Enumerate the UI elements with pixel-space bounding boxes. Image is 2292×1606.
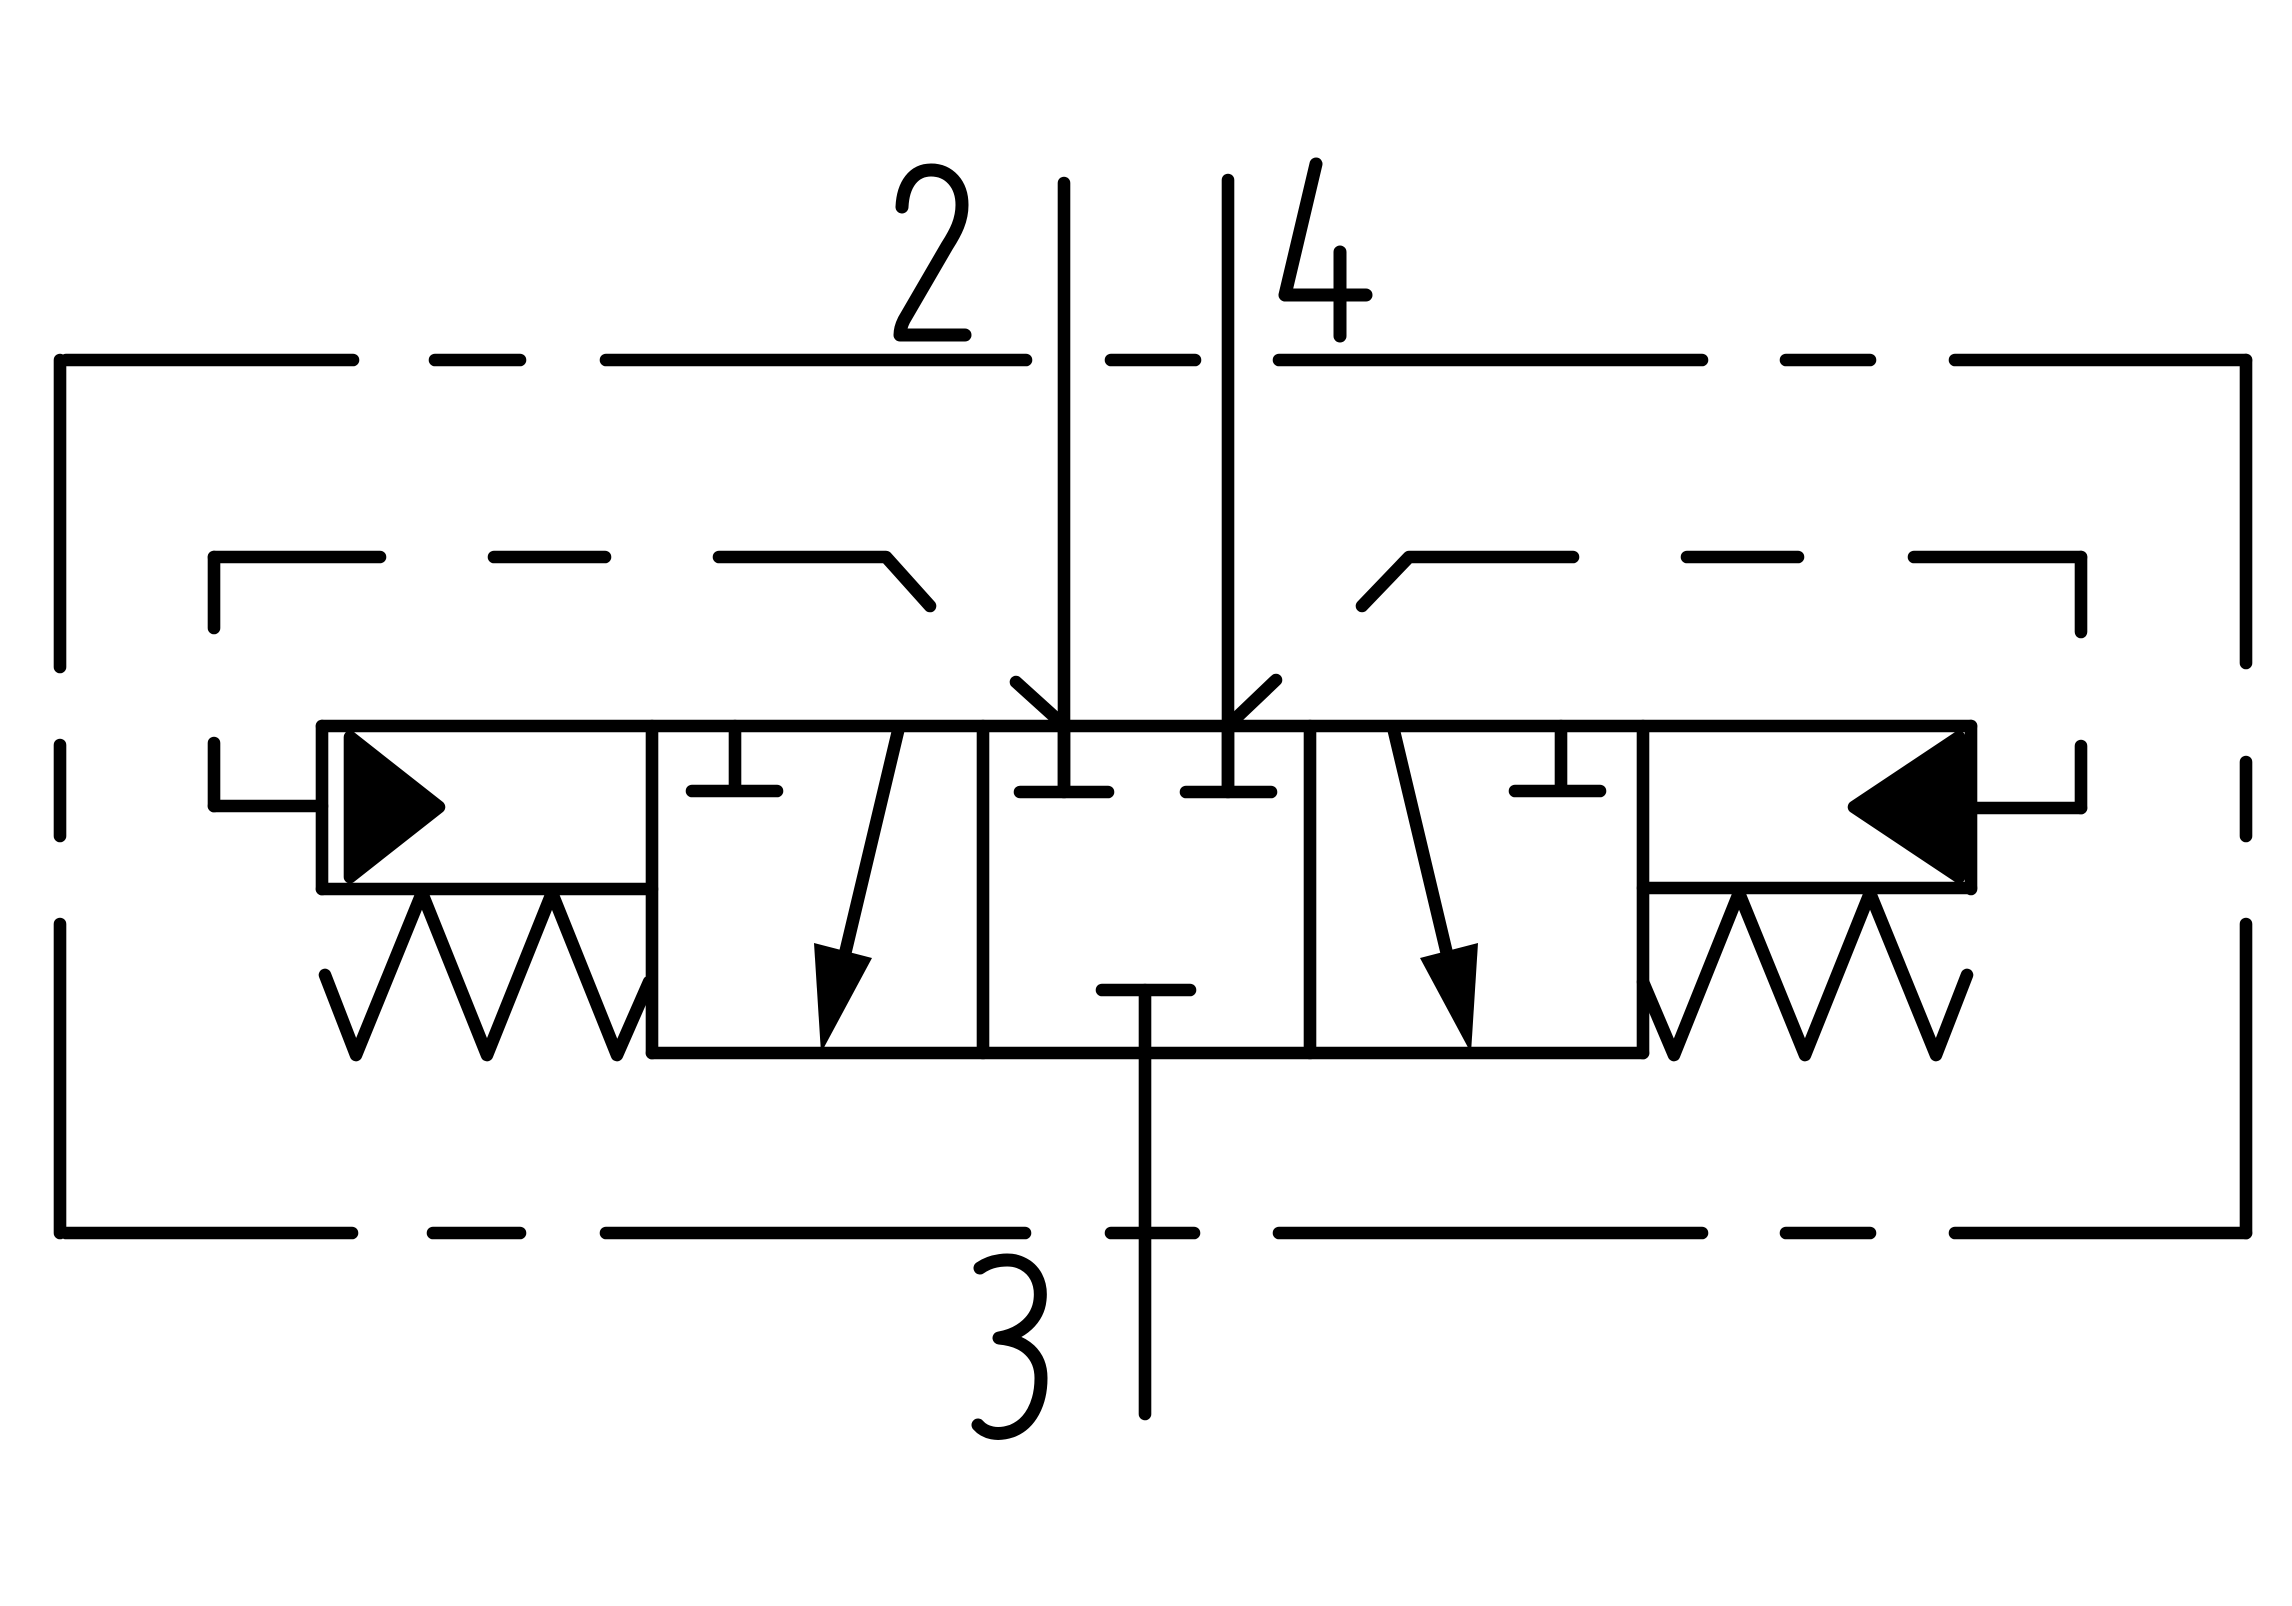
label 3 xyxy=(978,1260,1041,1433)
left position box arrow wire (port 4 to port 3) xyxy=(840,727,899,975)
left position box arrowhead xyxy=(814,943,872,1053)
port 4 wire xyxy=(1222,180,1235,792)
right position box arrowhead xyxy=(1420,943,1478,1053)
inner pilot line, left elbow dash bending toward valve xyxy=(719,557,930,606)
inner pilot line, top-right horizontal dashes xyxy=(1687,551,2081,564)
left pilot box bottom edge xyxy=(322,883,652,896)
left position box blocked port T (port 2 side) xyxy=(692,726,777,791)
right pilot box bottom edge xyxy=(1643,882,1971,895)
inner pilot line, right diagonal tick at valve port 4 xyxy=(1234,680,1276,720)
divider centre box / right position box xyxy=(1304,726,1317,1053)
right position box blocked port T (port 4 side) xyxy=(1515,726,1600,791)
label 2 xyxy=(900,170,965,335)
inner pilot line, left diagonal tick at valve port 2 xyxy=(1016,682,1058,720)
inner pilot line, right vertical dashes xyxy=(2075,557,2088,808)
inner pilot line, right elbow dash bending toward valve xyxy=(1362,557,1573,606)
outer pilot-line dashed rectangle: bottom edge xyxy=(66,1227,2246,1240)
centre box blocked port T under port 2 xyxy=(1020,726,1108,792)
divider right position box / right pilot box xyxy=(1637,726,1650,1053)
divider left position box / centre box xyxy=(977,726,990,1053)
inner pilot line, top-left horizontal dashes xyxy=(214,551,605,564)
centre box blocked port T under port 4 xyxy=(1186,726,1271,792)
label 4 xyxy=(1285,164,1366,336)
left centering spring xyxy=(325,893,649,1055)
pilot connection wire into left pilot operator xyxy=(214,800,322,813)
port 2 wire xyxy=(1058,183,1071,792)
inner pilot line, left vertical dashes xyxy=(208,557,221,806)
outer pilot-line dashed rectangle: right edge xyxy=(2240,360,2253,1233)
valve position boxes bottom edge xyxy=(652,1047,1643,1060)
right pilot box right edge xyxy=(1965,726,1978,889)
outer pilot-line dashed rectangle: left edge xyxy=(54,360,67,1233)
centre box blocked port T at port 3 xyxy=(1102,984,1190,997)
pilot operator triangle (right, pointing left) xyxy=(1854,737,1959,877)
valve top edge xyxy=(322,720,1971,733)
pilot operator triangle (left, pointing right) xyxy=(350,737,439,877)
outer pilot-line dashed rectangle: top edge xyxy=(66,354,2246,367)
port 3 wire xyxy=(1139,990,1152,1414)
left pilot box left edge xyxy=(316,726,329,889)
right centering spring xyxy=(1643,893,1967,1055)
divider left pilot box / left position box xyxy=(646,726,659,1053)
pilot connection wire into right pilot operator xyxy=(1971,802,2081,815)
right position box arrow wire (port 2 to port 3) xyxy=(1393,727,1452,975)
